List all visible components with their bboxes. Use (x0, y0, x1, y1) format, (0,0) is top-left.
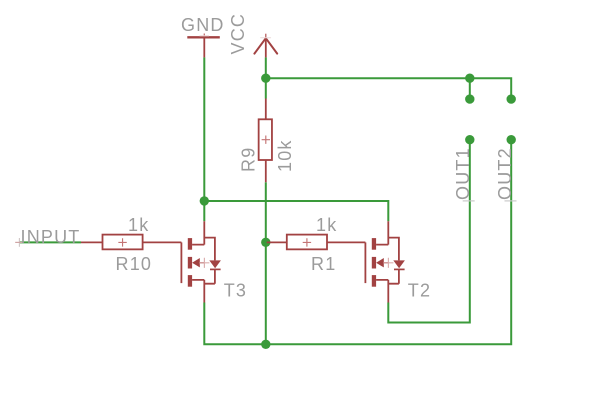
wire: VCC rail rightward with drop (266, 78, 511, 99)
channel bar top (source side) (188, 238, 192, 250)
node: junction dot VCC rail right (465, 74, 474, 83)
node: junction dot bottom rail (261, 340, 270, 349)
node: dot VCC stub 2 end (507, 94, 516, 103)
pin R9 top (265, 99, 267, 120)
bulk arrow of T3 (192, 258, 200, 267)
wire: bottom rail from T3 source to OUT2 riser (204, 140, 511, 345)
body diode branch of T3 (204, 238, 215, 261)
svg-text:R1: R1 (311, 254, 336, 274)
body R1 (287, 235, 327, 250)
svg-text:T2: T2 (408, 280, 431, 300)
svg-text:R10: R10 (116, 254, 153, 274)
origin cross R1 (303, 238, 311, 246)
node: junction dot R9 net to R1 (261, 238, 270, 247)
channel bar middle (bulk) (372, 257, 376, 269)
wire: R1 right pin to T2 gate (327, 241, 365, 243)
svg-text:INPUT: INPUT (21, 227, 81, 247)
svg-text:R9: R9 (238, 147, 258, 172)
body R10 (103, 235, 143, 250)
svg-text:VCC: VCC (228, 13, 248, 55)
node: junction dot GND net (200, 196, 209, 205)
node: dot VCC stub 1 end (465, 94, 474, 103)
pin R9 bottom (265, 160, 267, 182)
wire: T2 source to OUT1 riser (388, 140, 470, 323)
ground symbol GND (187, 34, 220, 58)
svg-text:GND: GND (181, 15, 225, 35)
resistor R9 (10k, vertical) (259, 99, 272, 183)
body diode return of T2 (388, 269, 399, 283)
bulk wire of T2 (384, 262, 389, 264)
origin cross of T3 (199, 258, 209, 268)
pin R10 left (81, 241, 103, 243)
bulk wire of T3 (200, 262, 205, 264)
node: OUT1 pin tick (463, 200, 475, 202)
body diode cathode bar of T2 (394, 268, 405, 270)
origin cross R9 (262, 136, 270, 144)
channel bar bottom (drain side) (372, 275, 376, 287)
resistor R1 (1k, horizontal) (267, 235, 327, 250)
channel bar top (source side) (372, 238, 376, 250)
node: INPUT wire end cross (18, 238, 20, 247)
node: junction dot VCC at R9 (261, 74, 270, 83)
svg-text:1k: 1k (128, 215, 149, 235)
body diode cathode bar of T3 (210, 268, 221, 270)
wire: GND net vertical down to T3 drain (203, 57, 205, 221)
origin cross R10 (118, 238, 126, 246)
origin cross of T2 (383, 258, 393, 268)
gate plate of T3 (180, 242, 182, 283)
gate plate of T2 (364, 242, 366, 283)
svg-text:OUT2: OUT2 (495, 147, 515, 200)
svg-text:1k: 1k (316, 215, 337, 235)
source lead of T2 (376, 280, 388, 303)
body R9 (259, 119, 272, 160)
body diode branch of T2 (388, 238, 399, 261)
bulk arrow of T2 (376, 258, 384, 267)
body diode return of T3 (204, 269, 215, 283)
body diode triangle of T2 (393, 260, 405, 268)
channel bar bottom (drain side) (188, 275, 192, 287)
transistor T3 (p-channel MOSFET) (181, 221, 221, 302)
wire: VCC stub drop (469, 78, 471, 99)
body diode triangle of T3 (209, 260, 221, 268)
drain lead of T2 (376, 221, 388, 244)
svg-text:10k: 10k (275, 139, 295, 172)
wire: from GND junction right and down to T2 drain (204, 201, 388, 221)
node: dot top of OUT2 wire (507, 135, 516, 144)
resistor R10 (1k, horizontal) (81, 235, 143, 250)
node: OUT2 pin tick (505, 200, 517, 202)
drain lead of T3 (192, 221, 204, 244)
wire: R9 bottom net down to bottom rail (265, 182, 267, 344)
wire: VCC net from arrow to R9 top pin (265, 57, 267, 98)
svg-text:OUT1: OUT1 (453, 147, 473, 200)
node: dot top of OUT1 wire (465, 135, 474, 144)
power symbol VCC (up arrow) (254, 34, 277, 58)
wire: R10 right pin to T3 gate (143, 241, 182, 243)
svg-text:T3: T3 (224, 280, 247, 300)
pin R1 left (267, 241, 287, 243)
channel bar middle (bulk) (188, 257, 192, 269)
wire: INPUT net (20, 241, 82, 243)
source lead of T3 (192, 280, 204, 303)
transistor T2 (p-channel MOSFET) (365, 221, 405, 302)
